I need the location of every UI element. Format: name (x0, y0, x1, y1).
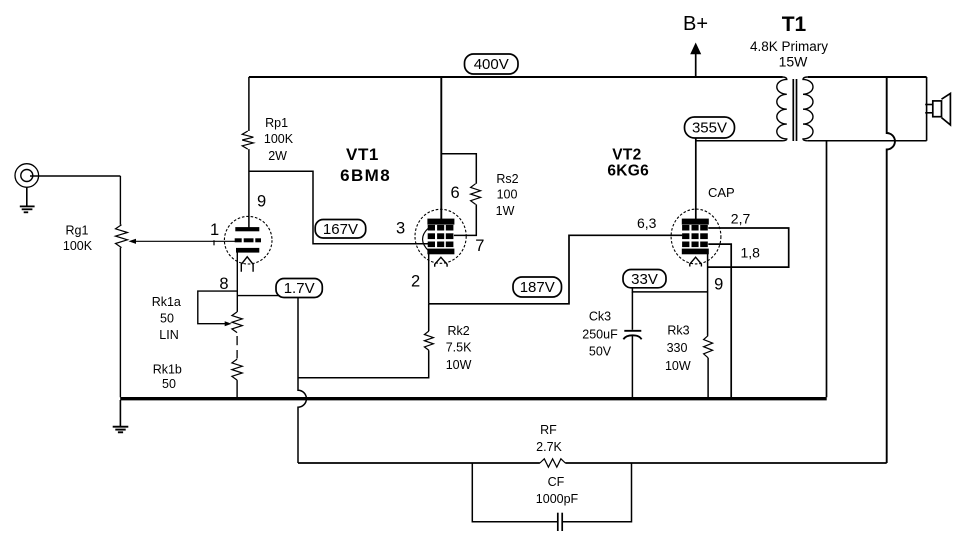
svg-text:10W: 10W (665, 359, 691, 373)
wire: Rg1 bottom to ground bus (119, 248, 121, 398)
svg-text:330: 330 (667, 341, 688, 355)
svg-text:VT1: VT1 (346, 145, 379, 164)
wire: secondary cold side down to ground bus (826, 141, 828, 397)
svg-text:1000pF: 1000pF (536, 492, 579, 506)
speaker (925, 93, 950, 125)
svg-text:8: 8 (219, 275, 228, 293)
wire: VT2 beam plates 2,7 strap (708, 228, 789, 267)
wire: Rs2 bottom to screen pin 7 (454, 204, 476, 235)
wire: feedback line left segment (298, 462, 540, 464)
capacitor Ck3 top lead (631, 292, 633, 330)
node 1.7V callout (276, 279, 322, 298)
svg-text:1: 1 (210, 221, 219, 239)
svg-text:9: 9 (714, 275, 723, 293)
svg-text:6KG6: 6KG6 (607, 162, 649, 179)
tube VT1 pentode section envelope (415, 209, 466, 263)
input jack connector (15, 164, 39, 188)
svg-text:1.7V: 1.7V (284, 280, 315, 297)
wire: CF loop right (563, 463, 632, 522)
svg-text:VT2: VT2 (612, 147, 641, 164)
svg-text:2,7: 2,7 (731, 211, 751, 227)
svg-text:LIN: LIN (159, 328, 178, 342)
wire: ground bus (120, 397, 827, 400)
wire: speaker hot drop to feedback with hop (887, 77, 895, 463)
resistor Rs2 (471, 184, 481, 205)
resistor Rk3 (704, 336, 713, 358)
svg-text:Rp1: Rp1 (265, 116, 288, 130)
ground: main ground symbol (113, 400, 129, 432)
svg-text:Ck3: Ck3 (589, 310, 611, 324)
wire: Rg1 top lead (119, 176, 121, 225)
wire: input to Rg1 top (30, 175, 120, 177)
wire: VT2 cathode pin 9 down (707, 254, 709, 336)
svg-text:Rk1a: Rk1a (152, 295, 181, 309)
wire: secondary bottom return (807, 140, 926, 142)
tube VT2 envelope (671, 209, 721, 264)
svg-text:T1: T1 (782, 13, 807, 36)
wire: VT1 pentode cathode pin 2 down (428, 254, 430, 304)
svg-text:100: 100 (497, 187, 518, 201)
wire: 400V rail down to VT1 pentode plate pin 6 (440, 77, 442, 219)
svg-text:CF: CF (548, 475, 565, 489)
VT1 pentode heater (435, 257, 447, 267)
node 355V callout (685, 117, 735, 138)
svg-text:RF: RF (540, 423, 557, 437)
svg-text:7.5K: 7.5K (446, 340, 472, 354)
node 33V callout (623, 270, 666, 288)
svg-text:Rk1b: Rk1b (153, 362, 182, 376)
svg-text:Rs2: Rs2 (496, 172, 518, 186)
resistor Rk2 top lead (428, 304, 430, 331)
svg-text:400V: 400V (474, 56, 509, 73)
svg-text:1,8: 1,8 (741, 245, 761, 261)
svg-text:167V: 167V (323, 221, 358, 238)
wire: Rp1 top lead (248, 77, 250, 131)
svg-text:Rk3: Rk3 (667, 324, 689, 338)
svg-text:Rk2: Rk2 (447, 324, 469, 338)
svg-text:2.7K: 2.7K (536, 440, 562, 454)
wire: Rp1 bottom to VT1 triode plate (248, 149, 250, 228)
wire: Rg1 wiper to VT1 grid pin 1 (129, 239, 236, 246)
resistor Rp1 (242, 131, 253, 149)
svg-text:250uF: 250uF (582, 328, 618, 342)
svg-text:100K: 100K (264, 132, 294, 146)
svg-text:4.8K Primary: 4.8K Primary (750, 39, 828, 54)
wire: 1.7V cathode node to feedback drop (237, 295, 298, 297)
wire: output top rail secondary to speaker (808, 76, 927, 78)
svg-text:9: 9 (257, 193, 266, 211)
svg-text:6,3: 6,3 (637, 215, 657, 231)
node 187V callout (513, 277, 562, 297)
svg-text:7: 7 (475, 237, 484, 255)
wire: CF bypass loop (472, 463, 557, 522)
capacitor Ck3 (623, 331, 641, 340)
wire: cathode follower output node (187V) to VT2 grid (429, 235, 683, 303)
capacitor CF (558, 513, 562, 531)
VT2 heater (690, 257, 702, 266)
wire: Rk1b bottom to ground bus (236, 380, 238, 397)
svg-text:Rg1: Rg1 (66, 223, 89, 237)
VT1 pentode electrode stack (428, 219, 454, 254)
wire: primary bottom to 355V node (696, 140, 783, 142)
wire: feedback line right segment (565, 462, 886, 464)
svg-text:B+: B+ (683, 13, 708, 35)
svg-text:15W: 15W (779, 54, 809, 70)
VT1 triode heater (241, 257, 253, 272)
svg-text:6: 6 (451, 184, 460, 202)
transformer T1 primary winding (777, 77, 787, 141)
wire: B+ feed rail (400V) (249, 76, 783, 78)
svg-text:50: 50 (160, 311, 174, 325)
wire: 33V node to cathode (632, 288, 707, 292)
wire: 355V node down to VT2 plate cap (695, 139, 697, 220)
wire: plate node to pentode grid coupling (167V node) (249, 171, 428, 243)
wire: Rk3 bottom to ground bus (707, 358, 709, 397)
svg-text:CAP: CAP (708, 185, 735, 200)
node 400V callout (465, 54, 519, 74)
svg-text:187V: 187V (520, 279, 555, 296)
svg-text:100K: 100K (63, 239, 93, 253)
svg-text:355V: 355V (692, 120, 727, 137)
svg-text:2: 2 (411, 272, 420, 290)
VT2 electrode stack (682, 219, 708, 254)
VT1 triode plate (236, 228, 259, 231)
potentiometer Rk1a (232, 312, 242, 333)
resistor RF (540, 459, 565, 467)
VT1 pentode grid1 hook (423, 229, 429, 251)
svg-text:33V: 33V (631, 271, 658, 288)
wire: feedback drop with hop over ground bus (298, 296, 306, 463)
transformer T1 secondary winding (803, 77, 813, 141)
svg-text:10W: 10W (446, 358, 472, 372)
wire: Rk2 bottom to feedback node (298, 350, 429, 377)
tube VT1 triode section envelope (224, 216, 272, 264)
wire: VT2 g3 1,8 to ground bus (708, 244, 731, 397)
transformer T1 core (793, 79, 796, 141)
wire: VT1 triode cathode pin 8 down (236, 252, 238, 312)
VT1 triode cathode (237, 248, 259, 252)
wire: Rk1a bypass strap box (198, 291, 238, 326)
ground: input jack ground (20, 187, 35, 212)
svg-text:6BM8: 6BM8 (340, 166, 391, 185)
VT1 triode grid (dashed) (235, 239, 260, 242)
svg-text:1W: 1W (496, 204, 515, 218)
svg-text:3: 3 (396, 220, 405, 238)
wire: dashed gang link Rk1a-Rk1b (236, 336, 238, 359)
potentiometer Rg1 (116, 225, 128, 248)
resistor Rk2 (424, 331, 433, 350)
capacitor Ck3 bottom lead (631, 336, 633, 398)
wire: speaker branch vertical (926, 77, 928, 141)
svg-text:50V: 50V (589, 344, 612, 358)
svg-text:50: 50 (162, 377, 176, 391)
svg-text:2W: 2W (268, 149, 287, 163)
node 167V callout (315, 220, 366, 239)
B+ terminal arrow (690, 43, 701, 78)
wire: screen feed to Rs2 (441, 154, 476, 184)
resistor Rk1b (232, 359, 242, 380)
